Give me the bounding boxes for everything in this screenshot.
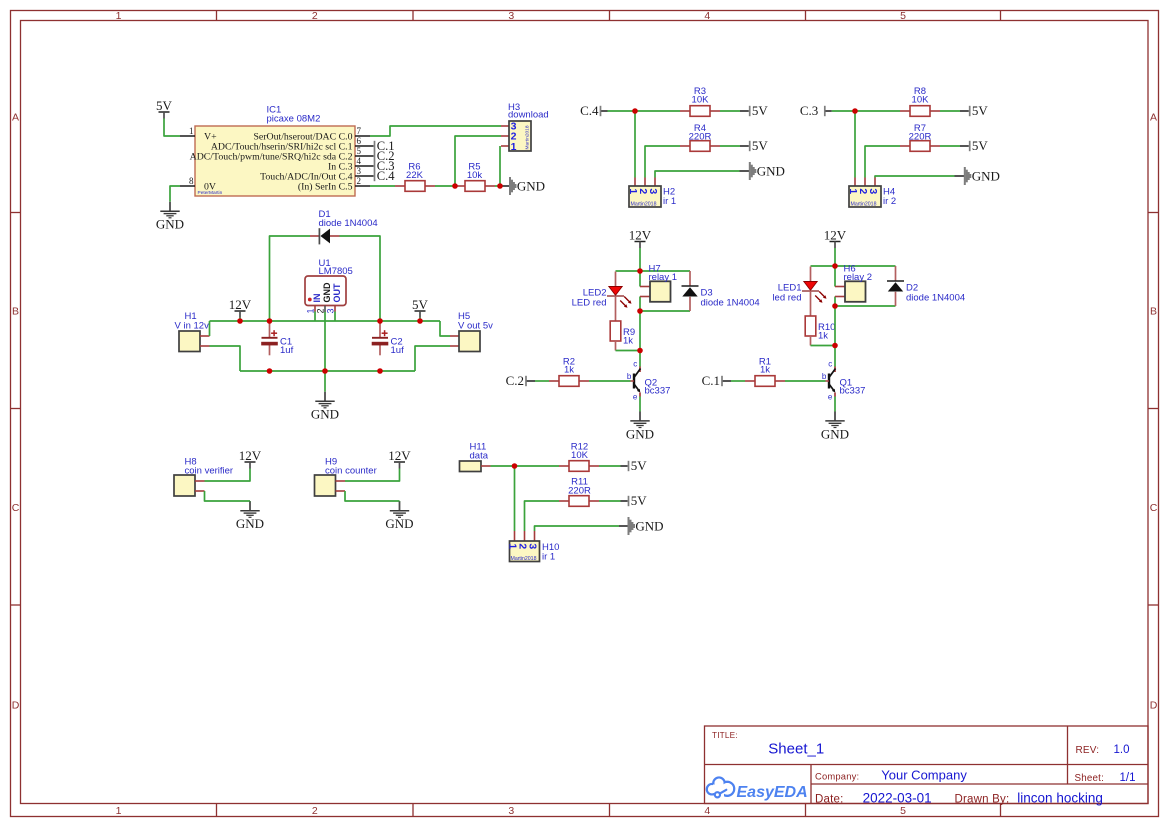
wire IC1 pin2 to R6 <box>370 185 395 187</box>
svg-text:220R: 220R <box>909 132 932 143</box>
resistor R3 10K <box>680 110 690 112</box>
regulator U1 LM7805 <box>305 276 346 306</box>
svg-text:ir 1: ir 1 <box>542 552 555 563</box>
svg-text:A: A <box>1150 112 1157 124</box>
svg-text:C.2: C.2 <box>506 373 524 388</box>
wire bottom rail GND <box>240 370 415 372</box>
svg-text:diode 1N4004: diode 1N4004 <box>319 218 378 229</box>
resistor R1 1k <box>745 380 755 382</box>
IC1 pin 2 <box>355 185 370 187</box>
net label C.4 (IC1) <box>374 171 376 181</box>
svg-text:5V: 5V <box>156 98 173 113</box>
svg-text:B: B <box>12 306 19 318</box>
svg-text:4: 4 <box>704 805 710 817</box>
svg-text:5V: 5V <box>972 138 989 153</box>
svg-text:ir 1: ir 1 <box>663 196 676 207</box>
connector H6 relay 2 <box>835 286 845 288</box>
wire mid rail to D3 <box>640 310 690 312</box>
junction dots <box>452 183 458 189</box>
power flag 5V (R7) <box>969 141 971 151</box>
svg-text:TITLE:: TITLE: <box>712 731 738 740</box>
resistor R12 10K <box>559 465 569 467</box>
power flag 5V (IC1) <box>159 111 170 113</box>
wire R5 to GND flag <box>495 185 500 187</box>
wire H9 pin1 to 12V <box>345 469 400 482</box>
wire IC1 pin8 to GND <box>170 186 180 202</box>
svg-text:C.4: C.4 <box>580 103 599 118</box>
power flag 12V (H9) <box>394 461 405 463</box>
svg-text:1: 1 <box>511 141 517 153</box>
wire D1 loop right <box>340 236 381 321</box>
wire top rail 12V <box>210 320 441 322</box>
resistor R9 1k <box>610 321 621 341</box>
svg-text:C.3: C.3 <box>800 103 818 118</box>
wire R1 to base <box>785 380 826 382</box>
wire C.1 to R1 <box>723 380 731 382</box>
svg-text:10K: 10K <box>912 95 930 106</box>
wire H9 pin2 to GND <box>345 491 400 501</box>
power flag 5V (R3) <box>749 106 751 116</box>
svg-text:4: 4 <box>357 156 362 166</box>
wire rail to H7 pin1 <box>639 271 641 287</box>
svg-text:Date:: Date: <box>815 793 844 805</box>
wire H1 pin1 up <box>209 321 211 336</box>
wire 12V down (Q2) <box>639 248 641 271</box>
wire C.2 to R2 <box>527 380 535 382</box>
wire H7 pin2 down <box>639 297 641 351</box>
svg-text:PeterMartin: PeterMartin <box>198 190 223 196</box>
svg-text:download: download <box>508 109 549 120</box>
capacitor C2 1uf <box>379 322 381 338</box>
svg-text:12V: 12V <box>229 297 252 312</box>
svg-text:10k: 10k <box>467 170 483 181</box>
svg-text:D: D <box>1150 699 1158 711</box>
svg-text:led red: led red <box>772 293 801 304</box>
svg-text:Martin2018: Martin2018 <box>511 556 537 562</box>
wire H6 pin2 down <box>834 297 836 346</box>
svg-text:12V: 12V <box>388 448 411 463</box>
svg-text:12V: 12V <box>824 227 847 242</box>
svg-text:10K: 10K <box>692 95 710 106</box>
wire rail to H6 pin1 <box>834 266 836 287</box>
svg-text:D: D <box>12 699 20 711</box>
wire R3 to 5V <box>720 110 740 112</box>
svg-text:4: 4 <box>704 10 710 22</box>
wire H2 pin1 vertical <box>634 111 636 178</box>
svg-text:5: 5 <box>900 805 906 817</box>
svg-text:relay 2: relay 2 <box>844 272 873 283</box>
IC IC1 picaxe 08M2 <box>195 126 355 196</box>
power flag 5V (R8) <box>969 106 971 116</box>
wire H11 to junction <box>491 465 515 467</box>
wire H5 pin2 to bottom rail <box>415 346 450 371</box>
svg-text:coin counter: coin counter <box>325 466 377 477</box>
wire H1 pin2 to bottom rail <box>210 346 241 371</box>
wire R9 bottom <box>615 341 617 351</box>
resistor R10 1k <box>805 316 816 336</box>
svg-text:GND: GND <box>517 178 545 193</box>
wire 12V down (Q1) <box>834 248 836 266</box>
wire R4 to 5V <box>720 145 740 147</box>
svg-text:3: 3 <box>326 308 336 313</box>
wire H8 pin1 to 12V <box>205 469 251 482</box>
wire H10 pin2 to R11 <box>525 501 560 531</box>
svg-text:Sheet_1: Sheet_1 <box>768 741 824 758</box>
wire emitter to GND (Q2) <box>639 397 641 412</box>
svg-text:ir 2: ir 2 <box>883 196 896 207</box>
svg-text:picaxe 08M2: picaxe 08M2 <box>267 113 321 124</box>
IC1 pin 1 <box>180 135 195 137</box>
resistor R6 22K <box>395 185 405 187</box>
power flag 12V (Q1 section) <box>830 241 841 243</box>
wire H10 pin1 vertical <box>514 466 516 531</box>
svg-text:A: A <box>12 112 19 124</box>
wire R10 bottom <box>810 336 812 346</box>
svg-text:GND: GND <box>635 518 663 533</box>
svg-text:Sheet:: Sheet: <box>1075 773 1105 784</box>
svg-text:V in 12v: V in 12v <box>175 321 210 332</box>
svg-text:3: 3 <box>527 543 539 549</box>
svg-text:Martin2018: Martin2018 <box>525 125 531 149</box>
svg-text:C: C <box>12 502 20 514</box>
svg-text:3: 3 <box>508 805 514 817</box>
IC1 pin 7 <box>355 135 370 137</box>
svg-text:3: 3 <box>357 166 362 176</box>
wire H10 pin3 to GND flag <box>535 526 620 531</box>
connector H10 ir 1 <box>514 531 516 541</box>
wire rail to H5 pin1 <box>440 321 450 336</box>
wire IC1 pin7 to H3 pin3 <box>370 126 501 136</box>
svg-text:3: 3 <box>647 188 659 194</box>
svg-text:8: 8 <box>189 176 194 186</box>
LED LED1 led red <box>810 267 812 282</box>
wire R12 to 5V <box>599 465 621 467</box>
wire H3 pin1 vertical <box>499 146 501 186</box>
power flag 5V (R12) <box>628 461 630 471</box>
ground (U1) <box>324 392 326 401</box>
svg-text:1k: 1k <box>564 365 574 376</box>
wire emitter to GND (Q1) <box>834 397 836 412</box>
connector H8 coin verifier <box>174 475 195 496</box>
svg-text:EasyEDA: EasyEDA <box>737 784 808 801</box>
svg-text:data: data <box>470 450 489 461</box>
wire junction to R3 <box>635 110 680 112</box>
connector H1 V in 12v <box>179 331 200 352</box>
svg-text:Martin2018: Martin2018 <box>851 201 877 207</box>
ground (Q2) <box>639 412 641 421</box>
svg-text:1: 1 <box>189 126 194 136</box>
svg-text:5V: 5V <box>631 458 648 473</box>
wire R6 to R5 <box>435 185 455 187</box>
svg-text:5V: 5V <box>412 297 429 312</box>
resistor R11 220R <box>559 500 569 502</box>
net label C.2 (IC1) <box>374 151 376 161</box>
svg-text:1.0: 1.0 <box>1114 744 1130 756</box>
svg-text:1/1: 1/1 <box>1120 772 1136 784</box>
svg-text:e: e <box>828 392 833 401</box>
title block <box>705 726 1149 804</box>
svg-text:b: b <box>822 372 827 381</box>
connector H4 ir 2 <box>854 178 856 187</box>
capacitor C1 1uf <box>269 322 271 338</box>
svg-text:5: 5 <box>900 10 906 22</box>
svg-text:lincon hocking: lincon hocking <box>1017 790 1103 805</box>
wire C.3 to junction <box>826 110 832 112</box>
svg-text:2022-03-01: 2022-03-01 <box>863 790 932 805</box>
svg-text:12V: 12V <box>239 448 262 463</box>
svg-text:22K: 22K <box>406 170 424 181</box>
svg-text:C: C <box>1150 502 1158 514</box>
wire R2 to base <box>589 380 631 382</box>
svg-text:GND: GND <box>626 426 654 441</box>
svg-text:coin verifier: coin verifier <box>185 466 234 477</box>
wire top rail (Q2) <box>616 270 691 272</box>
svg-text:GND: GND <box>385 516 413 531</box>
svg-text:GND: GND <box>156 217 184 232</box>
svg-text:1uf: 1uf <box>280 345 294 356</box>
IC1 pin 6 <box>355 145 374 147</box>
IC1 pin 4 <box>355 165 374 167</box>
LED lead to R10 <box>810 291 812 316</box>
ground flag (R5) <box>509 177 511 195</box>
net label C.3 (IC1) <box>374 161 376 171</box>
LED LED2 LED red <box>615 272 617 287</box>
ground (H9) <box>399 501 401 510</box>
wire H8 pin2 to GND <box>205 491 251 501</box>
svg-text:3: 3 <box>867 188 879 194</box>
svg-text:1k: 1k <box>818 331 828 342</box>
power flag 12V (H8) <box>245 461 256 463</box>
U1 pin2 lead <box>324 306 326 313</box>
svg-text:1: 1 <box>116 805 122 817</box>
svg-text:Your Company: Your Company <box>881 768 967 783</box>
resistor R7 220R <box>900 145 910 147</box>
svg-text:IN: IN <box>312 294 322 303</box>
ground (Q1) <box>834 412 836 421</box>
wire C.4 to junction <box>601 110 607 112</box>
svg-text:2: 2 <box>357 176 362 186</box>
connector H7 relay 1 <box>640 286 650 288</box>
wire H2 pin2 to R4 <box>645 146 680 178</box>
wire junction to R8 <box>855 110 900 112</box>
wire R11 to 5V <box>599 500 621 502</box>
svg-text:5V: 5V <box>752 103 769 118</box>
diode D3 1N4004 <box>689 271 691 286</box>
svg-text:relay 1: relay 1 <box>649 272 678 283</box>
svg-text:GND: GND <box>972 168 1000 183</box>
connector H3 download <box>501 125 509 127</box>
ground flag (H4) <box>964 167 966 185</box>
svg-text:c: c <box>633 360 637 369</box>
svg-text:bc337: bc337 <box>840 386 866 397</box>
ground (IC1 pin8) <box>169 202 171 211</box>
svg-text:LM7805: LM7805 <box>319 266 353 277</box>
svg-text:5: 5 <box>357 146 362 156</box>
svg-text:c: c <box>828 360 832 369</box>
svg-text:diode 1N4004: diode 1N4004 <box>701 298 760 309</box>
svg-text:GND: GND <box>821 426 849 441</box>
svg-text:1k: 1k <box>760 365 770 376</box>
wire D1 loop left <box>270 236 311 321</box>
power flag 12V (input) <box>235 310 246 312</box>
power flag 5V (R11) <box>628 496 630 506</box>
svg-text:5V: 5V <box>752 138 769 153</box>
wire mid rail to D2 <box>835 305 896 307</box>
svg-text:Martin2018: Martin2018 <box>631 201 657 207</box>
svg-text:1: 1 <box>306 308 316 313</box>
EasyEDA logo <box>707 778 808 802</box>
svg-text:e: e <box>633 392 638 401</box>
resistor R2 1k <box>549 380 559 382</box>
svg-text:2: 2 <box>316 308 326 313</box>
net label C.1 (IC1) <box>374 141 376 151</box>
power flag 5V (R4) <box>749 141 751 151</box>
svg-text:1k: 1k <box>623 336 633 347</box>
svg-text:3: 3 <box>508 10 514 22</box>
U1 pin1 lead <box>314 306 316 312</box>
wire H4 pin3 to GND flag <box>875 176 955 178</box>
svg-text:10K: 10K <box>571 450 589 461</box>
svg-text:diode 1N4004: diode 1N4004 <box>906 293 965 304</box>
svg-text:LED red: LED red <box>572 298 607 309</box>
U1 pin3 lead <box>334 306 336 312</box>
svg-text:5V: 5V <box>972 103 989 118</box>
ground flag (H2) <box>749 162 751 180</box>
svg-text:2: 2 <box>312 805 318 817</box>
svg-text:C.4: C.4 <box>377 169 396 183</box>
wire R8 to 5V <box>940 110 960 112</box>
diode D1 1N4004 <box>310 235 319 237</box>
svg-text:bc337: bc337 <box>645 386 671 397</box>
svg-text:GND: GND <box>757 163 785 178</box>
connector H9 coin counter <box>315 475 336 496</box>
power flag 5V (output) <box>415 310 426 312</box>
svg-text:REV:: REV: <box>1076 745 1100 756</box>
svg-text:Company:: Company: <box>815 771 859 782</box>
IC1 pin 3 <box>355 175 374 177</box>
IC1 pin 5 <box>355 155 374 157</box>
ground (H8) <box>249 501 251 510</box>
wire H4 pin1 vertical <box>854 111 856 178</box>
svg-text:12V: 12V <box>629 227 652 242</box>
wire U1 GND down <box>324 371 326 392</box>
svg-text:GND: GND <box>311 407 339 422</box>
wire H3 pin2 vertical <box>455 136 501 186</box>
svg-text:Drawn By:: Drawn By: <box>955 793 1010 805</box>
svg-text:b: b <box>627 372 632 381</box>
svg-text:220R: 220R <box>568 486 591 497</box>
svg-text:(In) SerIn C.5: (In) SerIn C.5 <box>298 182 353 193</box>
svg-text:OUT: OUT <box>332 283 342 303</box>
svg-text:1: 1 <box>116 10 122 22</box>
wire junction to R12 <box>515 465 560 467</box>
ground flag (H10) <box>628 517 630 535</box>
power flag 12V (Q2 section) <box>635 241 646 243</box>
connector H11 data <box>460 461 482 472</box>
wire top rail (Q1) <box>811 265 896 267</box>
svg-text:C.1: C.1 <box>702 373 720 388</box>
diode D2 1N4004 <box>895 266 897 281</box>
svg-text:GND: GND <box>322 282 332 303</box>
LED lead to R9 <box>615 296 617 321</box>
svg-text:220R: 220R <box>689 132 712 143</box>
connector H2 ir 1 <box>634 178 636 187</box>
svg-text:V out 5v: V out 5v <box>458 321 493 332</box>
svg-text:6: 6 <box>357 136 362 146</box>
transistor Q2 bc337 <box>639 351 641 367</box>
wire H2 pin3 to GND flag <box>655 171 740 178</box>
connector H5 V out 5v <box>450 335 459 337</box>
svg-text:B: B <box>1150 306 1157 318</box>
resistor R5 10k <box>455 185 465 187</box>
resistor R4 220R <box>680 145 690 147</box>
svg-text:2: 2 <box>312 10 318 22</box>
resistor R8 10K <box>900 110 910 112</box>
wire 5V to IC1 pin1 <box>164 119 180 137</box>
wire R7 to 5V <box>940 145 960 147</box>
svg-text:7: 7 <box>357 126 362 136</box>
wire H4 pin2 to R7 <box>865 146 900 178</box>
transistor Q1 bc337 <box>834 346 836 367</box>
svg-text:GND: GND <box>236 516 264 531</box>
svg-text:1uf: 1uf <box>391 345 405 356</box>
IC1 pin 8 <box>180 185 195 187</box>
svg-text:5V: 5V <box>631 493 648 508</box>
